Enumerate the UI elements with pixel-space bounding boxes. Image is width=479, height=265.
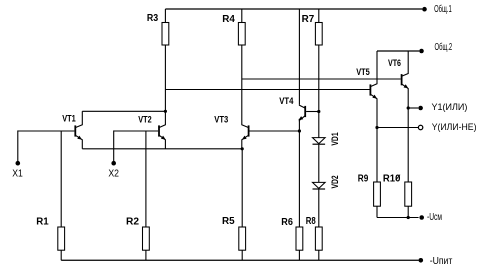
transistor VT4 emitter arrow <box>299 116 304 120</box>
terminal -Uсм <box>419 215 424 220</box>
terminal X1 <box>15 161 20 166</box>
wire bottom rail to -Uпит <box>61 259 418 261</box>
transistor VT6 collector <box>402 51 409 76</box>
junction R10 / -Uсм rail <box>407 216 410 219</box>
resistor R5 wire <box>241 149 243 227</box>
terminal Общ.1 <box>422 7 427 12</box>
svg-text:VT5: VT5 <box>356 67 370 77</box>
wire R9 to -Uсм rail <box>376 206 378 217</box>
svg-text:R6: R6 <box>281 217 293 228</box>
resistor R7 <box>315 23 322 46</box>
resistor R9 <box>374 182 381 206</box>
resistor R1 <box>58 227 65 250</box>
wire VT4 collector to top rail <box>298 9 300 104</box>
svg-text:X2: X2 <box>108 169 119 180</box>
transistor VT3 collector <box>242 124 249 128</box>
svg-text:-Uпит: -Uпит <box>430 255 453 265</box>
transistor VT5 emitter <box>370 94 377 182</box>
wire VT5 emitter to output Y(ИЛИ-НЕ) <box>377 127 418 129</box>
svg-text:VT2: VT2 <box>138 114 151 124</box>
svg-text:VD1: VD1 <box>330 132 340 145</box>
terminal Общ.2 <box>419 49 424 54</box>
resistor R3 <box>162 23 169 46</box>
svg-text:Общ.1: Общ.1 <box>434 3 452 15</box>
svg-text:R9: R9 <box>358 173 369 184</box>
transistor VT2 emitter arrow <box>161 136 166 140</box>
transistor VT5 emitter arrow <box>372 95 377 99</box>
wire common emitter rail <box>82 148 242 150</box>
wire VT4 emitter down to R6 <box>298 119 300 227</box>
svg-text:Y1(ИЛИ): Y1(ИЛИ) <box>432 102 468 113</box>
transistor VT6 base bar <box>401 74 403 85</box>
transistor VT6 emitter arrow <box>404 84 409 88</box>
resistor R2 wire <box>145 131 147 227</box>
diode VD1 triangle <box>313 138 326 144</box>
wire R10 to -Uсм rail <box>407 206 409 217</box>
transistor VT2 base bar <box>158 125 160 136</box>
resistor R4 wires <box>241 9 243 23</box>
transistor VT2 collector <box>159 111 165 127</box>
resistor R4 <box>238 23 245 46</box>
diode VD2 cathode bar <box>313 188 326 190</box>
junction VT3 base / VT4 emitter / R6 <box>298 129 301 132</box>
transistor VT1 emitter arrow <box>77 136 82 140</box>
junction VT6 emitter / output <box>407 106 410 109</box>
node X1 input wire <box>18 130 75 132</box>
resistor R5 <box>239 227 246 250</box>
transistor VT3 base bar <box>248 125 250 136</box>
transistor VT1 collector <box>75 111 82 127</box>
svg-text:VT1: VT1 <box>62 114 76 124</box>
svg-text:VT3: VT3 <box>214 115 228 125</box>
node X2 input wire <box>114 130 158 132</box>
wire Общ.2 <box>377 50 419 52</box>
wire VT4 base to bias divider <box>306 111 319 113</box>
terminal -Uпит <box>419 258 424 263</box>
svg-text:VT6: VT6 <box>388 58 401 68</box>
transistor VT1 base bar <box>74 125 76 136</box>
svg-text:R7: R7 <box>302 14 315 25</box>
resistor R8 <box>315 227 322 250</box>
wire VT1 collector to R3 node <box>82 110 165 112</box>
wire VT6 emitter to output Y1(ИЛИ) <box>408 107 418 109</box>
wire VD2 to R8 <box>318 189 320 227</box>
wire R7 node to VD1 <box>318 112 320 138</box>
resistor R3 wires <box>164 9 166 23</box>
junction VT4 base / R7 / VD1 <box>317 110 320 113</box>
diode VD1 cathode bar <box>313 143 326 145</box>
transistor VT2 emitter <box>159 135 165 149</box>
wire top rail to Общ.1 <box>165 8 422 10</box>
svg-text:VT4: VT4 <box>279 96 293 106</box>
label R10 slashed zero <box>396 175 400 181</box>
svg-text:R4: R4 <box>222 14 235 25</box>
svg-text:Y(ИЛИ-НЕ): Y(ИЛИ-НЕ) <box>432 122 477 133</box>
transistor VT4 base bar <box>304 106 306 117</box>
resistor R1 wire <box>60 131 62 227</box>
svg-text:X1: X1 <box>12 169 23 180</box>
resistor R2 <box>143 227 150 250</box>
resistor R7 wires <box>318 9 320 23</box>
wire VT3 collector node to VT6 base <box>242 78 401 80</box>
transistor VT5 collector <box>370 51 377 87</box>
svg-text:R10: R10 <box>383 173 401 184</box>
svg-text:R8: R8 <box>306 216 316 227</box>
svg-text:R2: R2 <box>126 217 139 228</box>
svg-text:R1: R1 <box>36 217 49 228</box>
transistor VT3 emitter arrow <box>242 136 247 140</box>
wire VD1 to VD2 <box>318 145 320 183</box>
resistor R10 <box>405 182 412 206</box>
terminal X2 <box>111 161 116 166</box>
terminal Y(ИЛИ-НЕ) <box>418 125 422 129</box>
transistor VT4 collector <box>299 104 305 108</box>
transistor VT5 base bar <box>369 84 371 95</box>
svg-text:Общ.2: Общ.2 <box>435 41 453 53</box>
diode VD2 triangle <box>313 182 326 188</box>
transistor VT1 emitter <box>75 135 82 149</box>
wire VT3 base to VT4 emitter node <box>250 130 300 132</box>
svg-text:-Uсм: -Uсм <box>427 211 442 223</box>
svg-text:VD2: VD2 <box>330 175 340 188</box>
svg-text:R3: R3 <box>147 13 159 24</box>
resistor R6 <box>296 227 303 250</box>
wire -Uсм rail <box>377 217 419 219</box>
transistor VT4 emitter <box>299 116 305 121</box>
transistor VT3 emitter <box>242 135 249 149</box>
transistor VT6 emitter <box>402 84 409 182</box>
junction VT3 emitter / emitter rail / R5 <box>241 147 244 150</box>
terminal Y1(ИЛИ) <box>418 106 423 111</box>
junction R3 / VT1 / VT2 collectors <box>164 110 167 113</box>
wire R3 node to VT5 base <box>165 89 369 91</box>
junction VT5 emitter / output <box>375 126 378 129</box>
svg-text:R5: R5 <box>222 216 235 227</box>
